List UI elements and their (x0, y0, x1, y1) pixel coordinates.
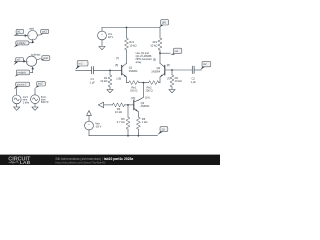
svg-text:multiply: multiply (17, 72, 26, 75)
svg-text:1 µF: 1 µF (190, 80, 196, 84)
svg-text:10 kΩ: 10 kΩ (100, 79, 107, 83)
svg-text:[7]: [7] (116, 56, 119, 60)
svg-text:[8]: [8] (115, 63, 118, 67)
svg-text:array: array (136, 61, 142, 64)
svg-text:18V: 18V (162, 22, 167, 25)
svg-text:2N3904: 2N3904 (129, 70, 138, 73)
svg-text:multiply: multiply (17, 42, 26, 45)
svg-text:source 1: source 1 (17, 83, 27, 86)
svg-text:10 kΩ: 10 kΩ (175, 79, 182, 83)
svg-text:out2: out2 (43, 57, 48, 60)
svg-text:subtract: subtract (31, 52, 41, 56)
svg-text:+: + (88, 123, 90, 126)
svg-text:4.7 kΩ: 4.7 kΩ (117, 120, 125, 124)
svg-text:-18 V: -18 V (95, 125, 101, 129)
svg-text:10 kΩ: 10 kΩ (150, 44, 157, 48)
svg-text:add: add (29, 27, 34, 31)
svg-text:1 kHz: 1 kHz (23, 100, 30, 104)
svg-text:Rc1: Rc1 (129, 40, 134, 44)
svg-text:2N3904: 2N3904 (151, 70, 160, 73)
svg-text:−: − (88, 128, 90, 131)
svg-text:[8]: [8] (153, 57, 156, 61)
svg-text:2N3904: 2N3904 (141, 105, 150, 108)
svg-text:+: + (27, 60, 29, 63)
svg-text:10 kΩ: 10 kΩ (129, 44, 136, 48)
svg-text:C2: C2 (191, 76, 195, 80)
svg-text:10 kΩ: 10 kΩ (115, 110, 122, 114)
svg-text:[7]: [7] (167, 77, 170, 81)
svg-text:out: out (175, 50, 179, 53)
svg-text:1 µF: 1 µF (89, 80, 95, 84)
svg-text:+: + (32, 38, 34, 41)
svg-text:in 1: in 1 (79, 62, 84, 65)
svg-text:-18: -18 (161, 128, 165, 131)
svg-text:1 kΩ: 1 kΩ (142, 120, 148, 124)
svg-text:[15]: [15] (131, 96, 136, 100)
svg-text:+: + (28, 34, 30, 37)
svg-text:http://circuitlab.com/c5avz73y: http://circuitlab.com/c5avz73y4ba45/ (56, 160, 106, 164)
svg-text:–: – (31, 64, 33, 67)
svg-text:100 Ω: 100 Ω (145, 88, 152, 92)
svg-text:[8]: [8] (167, 63, 170, 67)
svg-text:out1: out1 (42, 31, 47, 34)
svg-text:100 Ω: 100 Ω (130, 88, 137, 92)
svg-text:18 V: 18 V (108, 35, 114, 39)
svg-text:src2: src2 (38, 83, 43, 86)
svg-text:+: + (101, 33, 103, 36)
svg-text:LAB: LAB (20, 160, 31, 165)
svg-text:[16]: [16] (117, 77, 122, 81)
svg-text:−: − (101, 38, 103, 41)
svg-text:500 Hz: 500 Hz (41, 101, 50, 104)
svg-text:C1: C1 (90, 77, 94, 81)
svg-text:Rc2: Rc2 (153, 40, 158, 44)
svg-text:[14]: [14] (145, 96, 150, 100)
